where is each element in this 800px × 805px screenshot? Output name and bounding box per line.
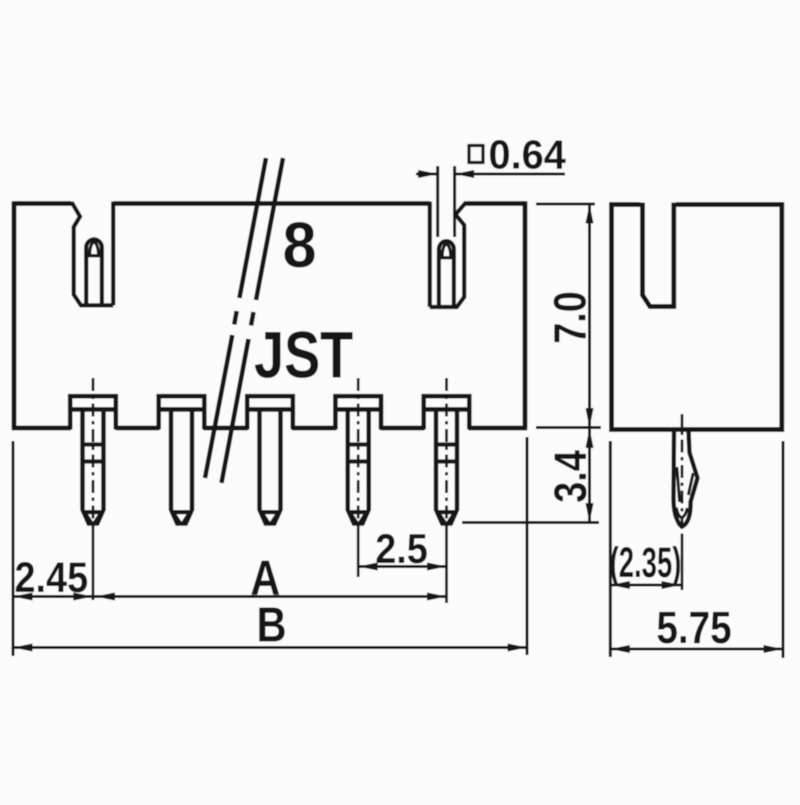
- svg-text:8: 8: [283, 209, 317, 281]
- svg-text:2.5: 2.5: [375, 526, 428, 572]
- svg-text:5.75: 5.75: [656, 602, 731, 652]
- svg-text:7.0: 7.0: [544, 291, 595, 344]
- svg-text:B: B: [256, 597, 286, 652]
- svg-text:JST: JST: [254, 317, 353, 391]
- svg-text:2.45: 2.45: [15, 553, 89, 602]
- svg-text:0.64: 0.64: [489, 131, 567, 178]
- svg-text:(2.35): (2.35): [610, 538, 682, 587]
- svg-text:3.4: 3.4: [545, 450, 596, 503]
